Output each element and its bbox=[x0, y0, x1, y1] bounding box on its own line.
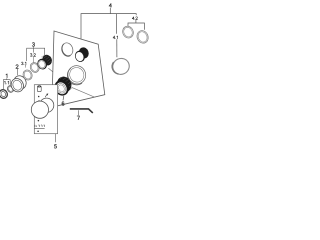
axis line cylinder to plate bbox=[48, 68, 52, 72]
label 4 bbox=[109, 4, 111, 8]
handle knob in box bbox=[31, 98, 53, 118]
leader to 7 bbox=[78, 110, 80, 115]
set screw bbox=[37, 85, 41, 91]
sleeve ring 2 bbox=[9, 74, 28, 94]
knurled nut 6 bbox=[52, 74, 74, 98]
label 4.2 bbox=[132, 17, 137, 20]
axis dot bbox=[37, 130, 39, 132]
dimension text bbox=[35, 125, 45, 127]
hole ring upper-left on plate bbox=[60, 41, 74, 57]
label 3 with bracket bbox=[32, 43, 34, 47]
ring 1.1 thin bbox=[6, 85, 14, 94]
knurled cylinder 3 bbox=[36, 53, 54, 71]
escutcheon plate 4 bbox=[52, 31, 105, 107]
leader to 5 bbox=[54, 134, 56, 143]
bracket 4.2 bbox=[128, 20, 144, 30]
label 4.1 bbox=[113, 36, 118, 39]
diagonal leader line bbox=[72, 87, 96, 97]
o-ring 3.1 bbox=[21, 68, 33, 81]
ring 1 small dark bbox=[0, 88, 9, 100]
o-ring 4.1 bbox=[110, 56, 132, 77]
axis dot under screw bbox=[38, 96, 40, 98]
o-ring 3.2 bbox=[29, 61, 41, 74]
label 6 bbox=[62, 102, 64, 106]
small arrow bbox=[45, 93, 48, 97]
allen key 7 bbox=[70, 109, 93, 113]
bracket 4 bbox=[81, 8, 136, 39]
collar ring lower hole on plate bbox=[65, 63, 89, 88]
label 1.1 bbox=[4, 81, 8, 84]
label 3.1 bbox=[21, 62, 26, 65]
leader 4.1 bbox=[116, 14, 118, 58]
axis dot bbox=[38, 120, 40, 122]
detail box 5 bbox=[34, 85, 57, 134]
label 3.2 bbox=[30, 54, 35, 57]
o-ring 4.2a bbox=[121, 25, 135, 40]
knob on plate bbox=[74, 46, 91, 63]
leader to 6 bbox=[62, 96, 65, 100]
o-ring 4.2b bbox=[135, 29, 150, 45]
label 2 with leader bbox=[16, 65, 18, 69]
label 5 bbox=[54, 145, 56, 149]
label 1 with bracket bbox=[6, 74, 7, 78]
label 7 bbox=[77, 116, 79, 120]
